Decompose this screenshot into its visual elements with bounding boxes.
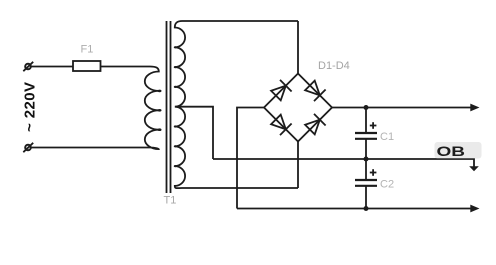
junction node middle rail bbox=[364, 157, 369, 162]
diode D upper-left bbox=[270, 80, 291, 101]
wire bridge bottom to secondary bottom bbox=[297, 142, 299, 189]
terminal bottom input bbox=[23, 143, 33, 152]
bridge rectifier diamond D1-D4 bbox=[264, 74, 332, 142]
svg-text:F1: F1 bbox=[81, 44, 94, 56]
svg-text:D1-D4: D1-D4 bbox=[318, 60, 350, 72]
diode D upper-right bbox=[304, 80, 325, 101]
transformer core bbox=[166, 21, 168, 193]
wire top input to fuse to transformer bbox=[31, 66, 150, 68]
transformer T1 secondary winding bbox=[175, 21, 298, 188]
diode D lower-right bbox=[304, 114, 325, 135]
wire secondary top to bridge top bbox=[297, 21, 299, 74]
transformer T1 primary winding bbox=[145, 67, 159, 150]
fuse F1 bbox=[73, 61, 101, 71]
junction node bottom rail bbox=[364, 206, 369, 211]
wire bridge left corner to bottom rail bbox=[237, 108, 264, 209]
top rail wire from bridge right corner bbox=[332, 107, 471, 109]
svg-text:ОВ: ОВ bbox=[437, 143, 466, 159]
svg-text:T1: T1 bbox=[164, 195, 177, 207]
primary cusp knots bbox=[158, 90, 162, 93]
wire center tap to middle rail bbox=[176, 107, 214, 159]
diode D lower-left bbox=[270, 114, 291, 135]
terminal top input bbox=[23, 62, 33, 71]
svg-text:C1: C1 bbox=[380, 131, 394, 143]
capacitor C2 bbox=[355, 159, 377, 209]
capacitor C1 bbox=[355, 108, 377, 160]
secondary cusp knots bbox=[174, 46, 177, 167]
arrowhead 0V down bbox=[469, 166, 479, 171]
middle rail wire to 0V bbox=[213, 159, 474, 167]
label 0V bbox=[435, 142, 482, 159]
junction node top rail bbox=[364, 105, 369, 110]
arrowhead bottom rail bbox=[470, 205, 479, 213]
svg-text:C2: C2 bbox=[380, 179, 394, 191]
bottom rail wire bbox=[237, 208, 471, 210]
arrowhead top rail bbox=[470, 104, 479, 112]
wire bottom input to transformer bbox=[31, 147, 150, 149]
svg-text:~ 220V: ~ 220V bbox=[22, 82, 39, 132]
